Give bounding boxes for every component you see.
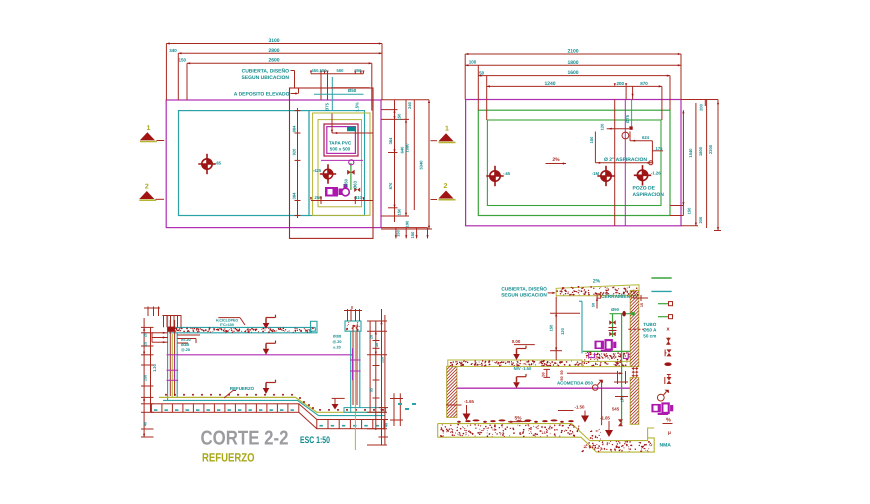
svg-text:3100: 3100 xyxy=(268,38,279,44)
note H. POBRE boxed xyxy=(216,318,245,327)
suction pipe (green) xyxy=(350,163,352,190)
title CORTE 2-2 xyxy=(201,428,289,450)
drain symbol basin xyxy=(198,154,221,174)
bottom edge extension right + dims xyxy=(381,228,429,239)
labels O75 / pvc top xyxy=(324,102,359,112)
label TAPA PVC 500x500 xyxy=(329,141,352,152)
corte level marker floor xyxy=(263,380,276,394)
detail level marker NIV-1.50 xyxy=(513,366,532,388)
corte left wall (cyan) xyxy=(168,316,178,400)
detail bottom slab speckles xyxy=(440,424,652,452)
aspiration top mini dim xyxy=(600,123,633,130)
pit bottom dims xyxy=(310,195,373,204)
svg-text:Ø75: Ø75 xyxy=(625,114,630,123)
svg-text:5%: 5% xyxy=(515,416,523,422)
title ESC 1:50 xyxy=(300,435,330,446)
plan2 top-right edge extension xyxy=(681,100,718,111)
pit slab inner edge (olive) xyxy=(318,120,362,207)
note CUBIERTA DISENO xyxy=(501,286,555,299)
legend sym circle flag xyxy=(657,390,668,401)
svg-text:150: 150 xyxy=(589,136,594,143)
corte right wall (cyan) xyxy=(351,331,360,407)
svg-text:175: 175 xyxy=(656,146,664,151)
svg-text:190: 190 xyxy=(405,220,410,227)
corte basin floor (olive) xyxy=(159,397,386,412)
svg-text:870: 870 xyxy=(640,81,648,86)
svg-text:Ø50: Ø50 xyxy=(344,178,349,187)
svg-text:200: 200 xyxy=(617,81,625,86)
valve on suction (red) xyxy=(347,170,355,175)
svg-text:870: 870 xyxy=(388,182,393,189)
legend sym oval xyxy=(664,362,671,366)
dim line 3100 (top) xyxy=(166,38,382,45)
plan 2 cut line magenta vertical xyxy=(624,100,626,226)
corte wall top mini dims xyxy=(152,332,168,344)
svg-text:2: 2 xyxy=(444,183,448,190)
svg-text:200: 200 xyxy=(698,216,703,223)
plan2 dim line 2100 xyxy=(465,49,681,56)
svg-text:Ø50: Ø50 xyxy=(348,88,357,93)
svg-text:Ø3/8: Ø3/8 xyxy=(333,335,341,339)
detail floor debris (dark red) xyxy=(457,419,574,422)
svg-text:150: 150 xyxy=(687,207,692,214)
svg-text:364: 364 xyxy=(388,137,393,144)
label 5% floor xyxy=(508,416,530,422)
detail valve at sump (red) xyxy=(618,419,623,426)
detail bottom slab outline (olive) xyxy=(438,424,655,453)
corte dim ticks top-left xyxy=(144,307,160,317)
legend sym check valve xyxy=(665,375,672,385)
svg-text:CUBIERTA, DISEÑO: CUBIERTA, DISEÑO xyxy=(501,286,547,293)
pipe top circle (magenta) xyxy=(349,160,354,165)
svg-text:120: 120 xyxy=(600,123,605,130)
section marker 2 right xyxy=(431,183,456,200)
note CERRAMIENTO xyxy=(597,294,637,300)
svg-text:500 x 500: 500 x 500 xyxy=(330,147,351,152)
svg-text:120: 120 xyxy=(381,357,385,363)
detail pump room left wall (cyan) xyxy=(579,301,582,353)
svg-text:1080: 1080 xyxy=(405,143,410,153)
svg-text:240: 240 xyxy=(407,101,412,108)
legend label NMA xyxy=(660,443,672,449)
svg-text:2%: 2% xyxy=(552,157,560,163)
svg-text:2: 2 xyxy=(145,184,149,191)
dim through tapa xyxy=(331,114,373,135)
corte top mini dims xyxy=(344,306,362,321)
corte lower floor level arrow xyxy=(332,398,345,409)
detail level -1.50b xyxy=(558,405,589,423)
label O63 vertical xyxy=(353,180,358,189)
plan2 dim extensions xyxy=(465,54,681,120)
small valve right (red) xyxy=(354,188,360,193)
corte deck slab outline (cyan) xyxy=(169,327,315,332)
dim chain 450,100 / 500 / 200 xyxy=(310,68,365,100)
note REFUERZO xyxy=(224,386,255,398)
pump pit room walls (cyan) xyxy=(309,111,365,216)
svg-text:µ: µ xyxy=(668,430,671,436)
svg-text:50: 50 xyxy=(560,370,564,374)
svg-text:150: 150 xyxy=(396,229,401,236)
detail slab drop dim xyxy=(592,297,599,309)
note ACOMETIDA xyxy=(557,380,603,391)
tapa frame inner (magenta) xyxy=(327,127,356,154)
svg-text:SEGUN UBICACION: SEGUN UBICACION xyxy=(501,292,547,298)
corte lower slab right bits xyxy=(390,393,416,426)
corte floor rebar dots xyxy=(165,394,384,411)
corte footing band A xyxy=(151,404,298,413)
pool plan view 1 basin (cyan) xyxy=(179,111,310,216)
legend sym mu xyxy=(668,430,671,436)
corte level marker deck xyxy=(263,315,276,329)
svg-text:Ø75: Ø75 xyxy=(324,102,329,111)
svg-text:TAPA PVC: TAPA PVC xyxy=(329,141,352,146)
svg-text:20: 20 xyxy=(370,335,374,339)
svg-text:95: 95 xyxy=(370,388,374,392)
dim line 2600 xyxy=(179,58,372,65)
drain symbol pit xyxy=(320,164,336,183)
svg-text:5340: 5340 xyxy=(419,160,424,170)
detail level -1.65 xyxy=(446,399,475,421)
detail pipe drop (green) xyxy=(621,314,623,425)
svg-text:150: 150 xyxy=(548,324,553,331)
corte right wall detail labels xyxy=(333,335,342,350)
svg-text:50 cm: 50 cm xyxy=(643,333,656,338)
svg-text:%: % xyxy=(666,418,671,424)
plan2 right dim chain xyxy=(670,100,721,231)
dim line 2800 xyxy=(169,48,382,55)
note CUBIERTA, DISENO SEGUN UBICACION xyxy=(241,68,294,88)
corte right wall top box xyxy=(345,321,361,331)
svg-text:150: 150 xyxy=(179,58,187,63)
pit left dim chain xyxy=(292,108,301,218)
section cut box (red) xyxy=(290,88,374,238)
svg-text:150: 150 xyxy=(410,231,415,238)
svg-text:1800: 1800 xyxy=(698,146,703,156)
plan2 dim line 1800 xyxy=(465,60,681,67)
legend green dash + red sq 1 xyxy=(658,302,673,306)
corte footing transition xyxy=(299,404,317,429)
detail right wall hatched lower xyxy=(584,378,692,425)
svg-text:POZO DE: POZO DE xyxy=(633,186,656,192)
label POZO DE ASPIRACION xyxy=(633,186,665,199)
svg-text:Ø50 A: Ø50 A xyxy=(643,328,657,333)
svg-text:CUBIERTA, DISEÑO: CUBIERTA, DISEÑO xyxy=(242,68,290,75)
corte wall ties (magenta) xyxy=(167,355,179,381)
svg-text:150: 150 xyxy=(397,113,402,120)
label O2 ASPIRACION xyxy=(604,157,653,165)
top edge extension right (red) xyxy=(381,99,429,101)
svg-text:450,100: 450,100 xyxy=(311,68,327,73)
svg-text:624: 624 xyxy=(642,135,650,140)
corte water line (magenta) xyxy=(177,354,352,356)
detail dim 545/175 xyxy=(567,372,628,425)
corte right wall ties (magenta) xyxy=(350,348,361,380)
detail pipe horizontal (green) xyxy=(610,307,635,316)
svg-text:NMA: NMA xyxy=(660,443,672,449)
corte footing band B xyxy=(317,420,384,429)
corte right wall rebar xyxy=(353,325,357,450)
plan2 dim line 1240 xyxy=(487,81,662,88)
svg-text:40: 40 xyxy=(144,422,148,426)
drain plan2 left xyxy=(486,166,511,186)
detail level marker 0.00 xyxy=(512,339,535,360)
label -425 xyxy=(313,168,322,173)
svg-text:SEGUN UBICACION: SEGUN UBICACION xyxy=(241,75,289,81)
legend sym x xyxy=(666,327,670,333)
corte left wall rebar (olive) xyxy=(171,334,173,398)
pool plan view 1 outer wall (magenta) xyxy=(166,100,381,228)
detail pump (magenta) xyxy=(595,339,617,352)
detail dims 50 left xyxy=(542,369,565,380)
svg-text:1800: 1800 xyxy=(567,60,578,66)
label O50 vertical xyxy=(344,178,349,187)
svg-text:50: 50 xyxy=(542,372,546,376)
detail 175 dim verticals xyxy=(614,371,628,384)
svg-text:1600: 1600 xyxy=(567,70,578,76)
title REFUERZO xyxy=(202,450,255,464)
corte deck concrete speckles xyxy=(170,327,314,333)
plan 2 cut line red vertical xyxy=(614,100,616,226)
svg-text:e.20: e.20 xyxy=(333,346,340,350)
detail anchor bolts (magenta) xyxy=(589,353,629,359)
corte left wall curb hatch xyxy=(162,316,181,328)
legend text TUBO xyxy=(643,322,657,339)
legend sym bowtie xyxy=(666,338,671,345)
svg-text:200: 200 xyxy=(698,103,703,110)
svg-text:e=.20: e=.20 xyxy=(181,338,191,342)
detail pump room floor grout xyxy=(583,352,630,362)
detail wall top ticks xyxy=(633,295,648,307)
slope label 2% xyxy=(546,157,567,165)
note A DEPOSITO ELEVADO xyxy=(234,88,299,98)
legend sym gate valve xyxy=(665,349,671,356)
right dim chain verticals xyxy=(395,100,430,229)
svg-text:50: 50 xyxy=(592,303,596,307)
detail pipe fittings (red) xyxy=(609,320,617,336)
svg-text:30: 30 xyxy=(375,343,379,347)
detail level -1.85 xyxy=(600,416,613,438)
corte wall top hooks (red) xyxy=(177,335,200,343)
svg-text:A DEPOSITO ELEVADO: A DEPOSITO ELEVADO xyxy=(234,92,290,98)
svg-text:100: 100 xyxy=(469,60,477,65)
svg-text:1240: 1240 xyxy=(544,81,555,87)
svg-text:1540: 1540 xyxy=(688,148,693,158)
plan2 dim line 1600 xyxy=(478,70,670,77)
corte basin floor (cyan) xyxy=(163,400,385,415)
pit slab outer edge (olive) xyxy=(313,113,370,215)
svg-text:15: 15 xyxy=(640,303,644,307)
svg-text:-1.26: -1.26 xyxy=(651,171,661,176)
svg-text:2200: 2200 xyxy=(708,144,713,154)
svg-text:15: 15 xyxy=(144,342,148,346)
svg-text:ASPIRACION: ASPIRACION xyxy=(633,192,665,198)
svg-text:Ø63: Ø63 xyxy=(353,180,358,189)
svg-text:ESC 1:50: ESC 1:50 xyxy=(300,435,330,446)
detail pipe valve dot xyxy=(622,311,626,317)
section marker 2 left xyxy=(139,184,164,201)
right dim ticks xyxy=(381,100,432,229)
svg-text:-1.50: -1.50 xyxy=(574,405,585,410)
svg-text:984: 984 xyxy=(292,125,297,132)
svg-text:1: 1 xyxy=(445,126,449,133)
svg-text:REFUERZO: REFUERZO xyxy=(202,450,255,464)
corte deck end curb (cyan) xyxy=(311,321,318,333)
corte left dim chain xyxy=(141,318,157,437)
pool plan 2 green rect outer xyxy=(478,110,670,215)
svg-text:545: 545 xyxy=(612,407,620,412)
detail top slab (olive + speckles) xyxy=(556,285,639,296)
corte left wall rebar (red) xyxy=(170,320,174,396)
svg-text:1.20: 1.20 xyxy=(152,363,157,372)
pipe line to deposit (red) xyxy=(331,87,370,89)
svg-text:CORTE 2-2: CORTE 2-2 xyxy=(201,428,289,450)
magenta line below tapa xyxy=(321,159,363,161)
corte right dim chain xyxy=(367,309,389,445)
svg-text:200: 200 xyxy=(355,68,363,73)
svg-text:20: 20 xyxy=(144,333,148,337)
corte level marker water xyxy=(263,341,276,355)
svg-text:-1.85: -1.85 xyxy=(600,416,611,421)
drain plan2 right xyxy=(634,165,661,185)
detail pipe vertical short (green) xyxy=(612,314,614,337)
right dim labels teal xyxy=(388,101,424,227)
svg-text:340: 340 xyxy=(169,48,177,53)
svg-text:2100: 2100 xyxy=(567,49,578,55)
detail right wall mesh gap xyxy=(632,367,638,377)
svg-text:TUBO: TUBO xyxy=(643,322,656,327)
svg-text:Ø3/8: Ø3/8 xyxy=(181,343,189,347)
section marker 1 left xyxy=(140,125,164,142)
svg-text:1: 1 xyxy=(147,125,151,132)
svg-text:-1M: -1M xyxy=(592,171,600,176)
svg-text:1.5%: 1.5% xyxy=(354,102,359,112)
svg-text:Ø 2" ASPIRACION: Ø 2" ASPIRACION xyxy=(604,157,647,163)
svg-text:-.65: -.65 xyxy=(503,171,511,176)
tapa frame (dark red) xyxy=(324,124,358,156)
svg-text:50: 50 xyxy=(479,71,485,76)
legend cyan line xyxy=(651,290,671,292)
detail deck slab (olive outline + speckles) xyxy=(448,360,582,367)
detail left wall hatched xyxy=(396,366,514,417)
pipe line cyan with label xyxy=(314,77,364,111)
svg-text:-85: -85 xyxy=(215,161,222,166)
highlight 150 (teal box) xyxy=(347,127,356,132)
svg-text:-1.65: -1.65 xyxy=(464,399,475,404)
detail pump room floor (green line) xyxy=(583,350,630,352)
svg-text:@.20: @.20 xyxy=(181,348,190,352)
svg-text:@.20: @.20 xyxy=(333,340,342,344)
corte right wall footing xyxy=(344,408,386,413)
pump symbol plan (magenta) xyxy=(325,184,349,197)
corte wall detail labels xyxy=(181,338,191,352)
detail deck band under room xyxy=(581,361,630,367)
svg-text:F′C=100: F′C=100 xyxy=(220,323,234,327)
tubo dashed leader xyxy=(628,328,644,330)
svg-text:Ø90: Ø90 xyxy=(611,307,620,312)
svg-text:110: 110 xyxy=(355,195,362,200)
svg-text:500: 500 xyxy=(337,68,345,73)
drain plan2 center xyxy=(592,166,615,186)
svg-text:NIV -1.50: NIV -1.50 xyxy=(514,366,532,371)
section marker 1 right xyxy=(431,126,456,143)
svg-text:-425: -425 xyxy=(313,168,322,173)
aspiration drop pipe xyxy=(625,86,634,126)
svg-text:2800: 2800 xyxy=(268,48,279,54)
pool plan 2 green rect inner xyxy=(487,120,661,206)
corte wall top hook cluster xyxy=(167,327,174,332)
svg-text:40: 40 xyxy=(385,423,389,427)
detail right wall hatched xyxy=(554,290,720,366)
svg-text:920: 920 xyxy=(292,148,297,155)
svg-text:0.00: 0.00 xyxy=(512,339,521,344)
svg-text:H.CICLOPEO: H.CICLOPEO xyxy=(216,319,239,323)
svg-text:384: 384 xyxy=(292,192,297,199)
legend sym percent xyxy=(663,418,673,424)
svg-text:150: 150 xyxy=(397,208,402,215)
svg-text:50: 50 xyxy=(560,376,564,380)
pool plan view 2 outer wall (magenta) xyxy=(466,100,681,226)
svg-text:2600: 2600 xyxy=(268,58,279,64)
legend green dash + red sq 2 xyxy=(658,315,673,319)
svg-text:2%: 2% xyxy=(593,279,601,285)
detail water line (magenta) xyxy=(457,387,630,389)
svg-text:150: 150 xyxy=(144,375,148,381)
legend pump icon xyxy=(651,402,673,415)
aspiration inner dims xyxy=(589,131,663,164)
label 2% top xyxy=(593,279,601,285)
svg-text:120: 120 xyxy=(560,327,565,334)
detail dims left of room xyxy=(548,297,580,360)
legend green line xyxy=(651,277,671,279)
dim extension lines plan 1 top xyxy=(166,44,382,111)
